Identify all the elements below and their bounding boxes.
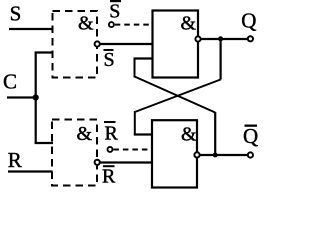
svg-text:&: & [181,13,197,35]
svg-text:R: R [8,148,22,172]
wire Q-bar feedback vertical left [134,59,136,78]
NAND gate DD1.2 (dashed input gate, bottom) [52,120,97,186]
svg-text:R: R [102,166,116,188]
input terminal circle S-bar (direct set input) [109,22,114,27]
node S-bar label (direct input, above) [110,0,121,2]
wire Q feedback vertical left [134,111,136,135]
junction Q node [218,36,223,41]
wire R input to gate DD1.2 [8,170,53,172]
svg-text:S: S [10,1,22,25]
wire Q-bar feedback into gate DD2.1 [134,57,154,59]
wire Q feedback diagonal to lower latch [135,80,221,113]
wire C vertical trunk [35,53,37,144]
input terminal circle R-bar (direct reset input) [108,147,113,152]
node R-bar label (direct input, above) [104,121,116,123]
dashed wire S-bar to gate DD2.1 [115,24,153,26]
junction Q-bar node [213,153,218,158]
junction C node [33,94,39,100]
wire Q feedback vertical from junction [220,39,222,80]
svg-text:S: S [104,49,115,71]
NAND gate DD2.1 (latch gate, top) [153,11,199,78]
node S-bar label (gate output, below wire) [104,49,114,51]
wire Q-bar feedback diagonal to upper latch [135,77,216,113]
svg-text:&: & [78,13,94,35]
node R-bar label (gate output, below wire) [103,165,115,167]
terminal Q-bar [248,152,253,157]
NAND gate DD1.1 (dashed input gate, top) [53,11,98,78]
wire C branch to gate DD1.2 [35,142,53,144]
wire Q-bar output [200,154,247,156]
wire C input horizontal [7,96,36,98]
NAND gate DD2.2 (latch gate, bottom) [152,120,197,187]
wire Q-bar feedback vertical from junction [214,112,216,155]
svg-text:C: C [3,70,17,94]
wire Q output [201,38,247,40]
svg-text:&: & [77,123,93,145]
svg-text:R: R [105,123,119,145]
wire Q feedback into gate DD2.2 [134,133,153,135]
svg-text:S: S [109,0,120,22]
wire DD1.1 output to gate DD2.1 [100,43,153,45]
terminal Q [248,36,253,41]
wire DD1.2 output to gate DD2.2 [100,161,153,163]
svg-text:Q: Q [241,9,256,33]
wire S input to gate DD1.1 [9,28,54,30]
output bubble of gate DD1.2 [95,160,100,165]
output bubble of gate DD2.2 [194,152,199,157]
svg-text:Q: Q [243,124,258,148]
svg-text:&: & [181,124,197,146]
dashed wire R-bar to gate DD2.2 [113,149,153,151]
wire C branch to gate DD1.1 [35,51,54,53]
output bubble of gate DD2.1 [195,36,200,41]
output bubble of gate DD1.1 [95,41,100,46]
node Q-bar label [245,125,258,127]
